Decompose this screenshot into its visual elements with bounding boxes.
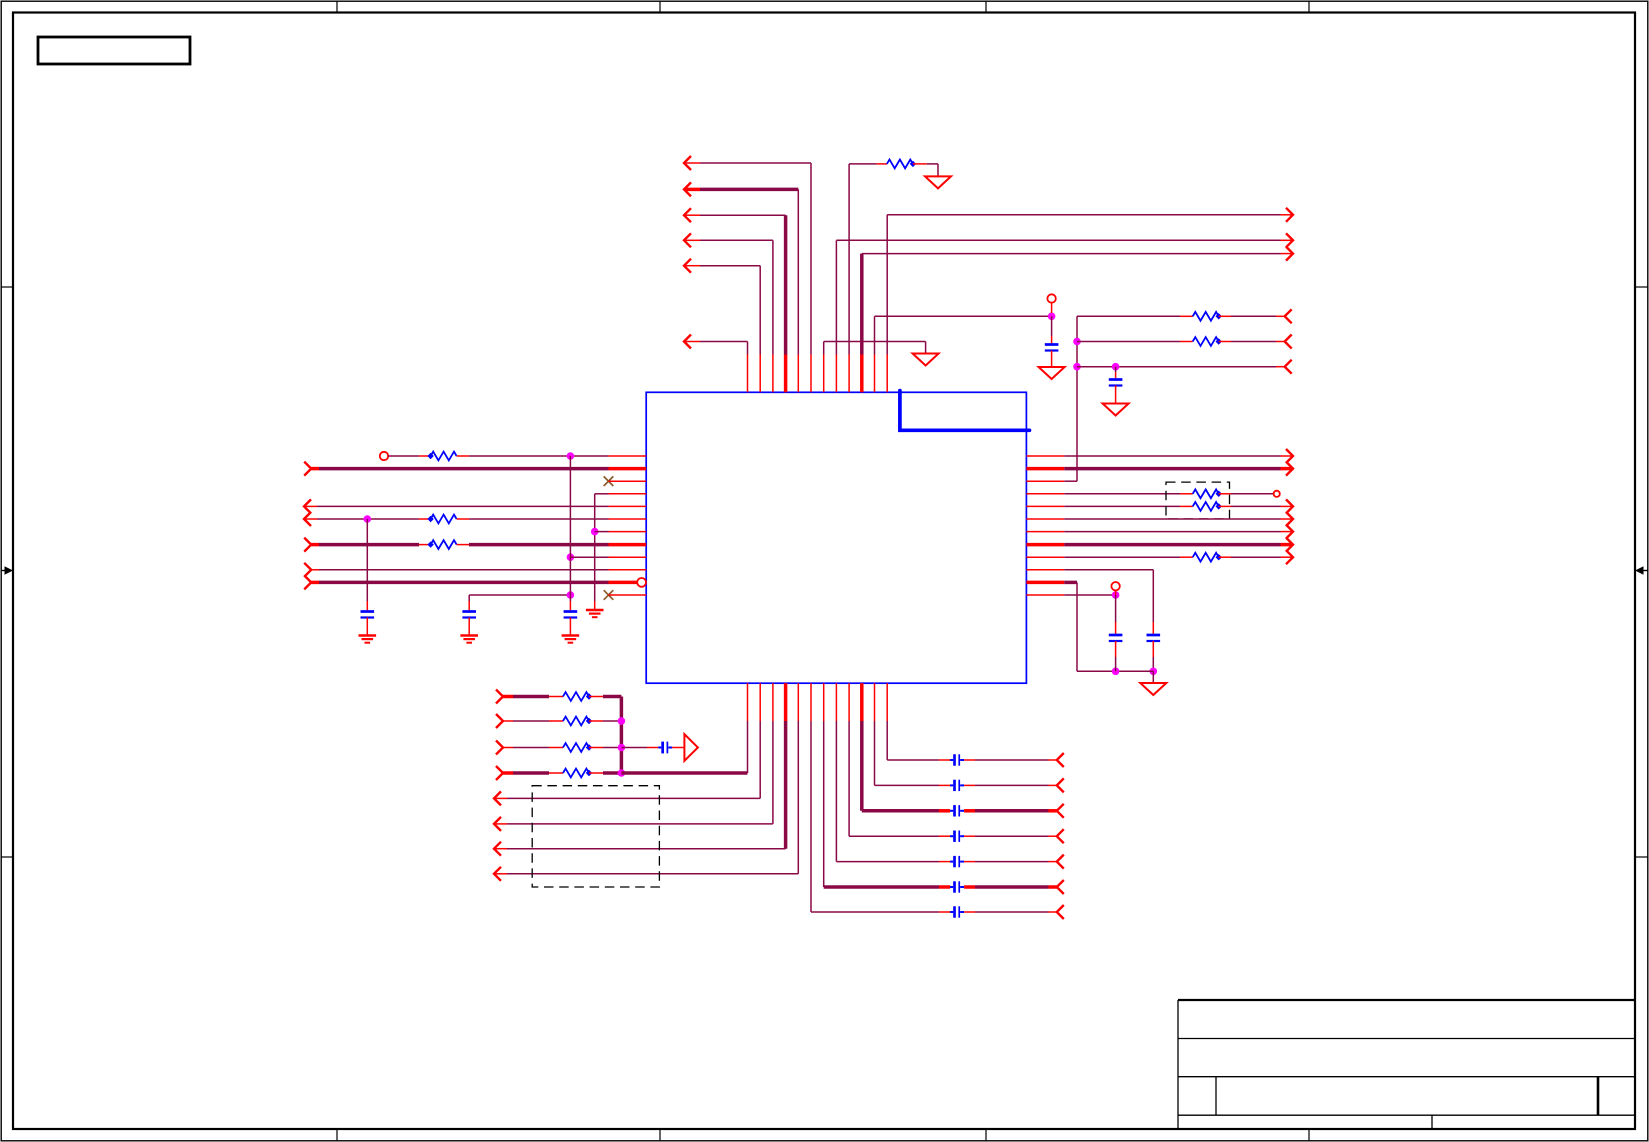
decoupling cap C4 below node x1051 (1051, 316, 1053, 336)
wire U1 pin 785.6 (thick riser) to left arrow y848.7 (784, 721, 788, 849)
wire U1 pin 861.8 to series cap C11 and arrow y810.8 (860, 721, 864, 811)
no-connect pin row3 (604, 476, 614, 486)
junction x621 y721 (618, 717, 626, 725)
wire top port 5 to U1 pin x760.2 (684, 259, 691, 273)
cap C7 x1115 (1115, 595, 1117, 622)
ground (bar) for C3 (562, 634, 580, 636)
wire U1 row5 via resistor R8 to right arrow (1064, 505, 1180, 507)
wire U1 pin 823.7 up to ground (823, 342, 825, 355)
wire top port 6 to U1 pin x747.5 (684, 335, 691, 349)
vertical wire x570 with cap C3 (569, 456, 571, 601)
no-connect pin row12 (604, 590, 614, 600)
ground (bar) for C2 (460, 634, 478, 636)
decoupling cap C2 branch x469 (468, 595, 470, 601)
dashed variant box around R7 R8 (1166, 482, 1230, 519)
wire U1 pin 849.1 to series cap C12 and arrow y836.2 (848, 721, 850, 836)
ground (bar) for C1 (359, 634, 377, 636)
port arrow y785.4 (1057, 778, 1064, 792)
off-page arrow right row5 (1286, 499, 1293, 513)
wire U1 row12 to cap C7 node (1064, 594, 1115, 596)
U1 top pin stubs (747, 355, 749, 393)
port arrow left y873.8 (494, 867, 501, 881)
wire bottom-left port 1 with resistor R10 (496, 690, 503, 704)
wire riser top via resistor R5 to left-pointing arrow y316 (1077, 315, 1180, 317)
U1 left pin stubs (609, 455, 647, 457)
port arrow y836.2 (1057, 829, 1064, 843)
junction row7 on x594.7 (591, 528, 599, 536)
ground (triangle) at 938 (925, 176, 951, 188)
ground (triangle) at 925 (913, 354, 939, 366)
junction x621 y773 (618, 769, 626, 777)
ground (triangle) for C4 (1039, 367, 1065, 379)
wire left port row8 (thick) with resistor R3 (304, 538, 311, 552)
wire U1 row11 (thick) riser to gnd rail (1064, 581, 1077, 585)
wire U1 pin 772.9 to left arrow y823.9 (772, 721, 774, 824)
wire U1 pin 887.2 to series cap C9 and arrow y760.0 (886, 721, 888, 760)
wire bottom-left port 4 with resistor R13 (496, 766, 503, 780)
wire U1 row7 to right arrow (1064, 531, 1280, 533)
wire U1 row2 (thick) to right arrow (1064, 467, 1280, 471)
junction row12 (1112, 591, 1120, 599)
wire U1 pin 861.8 (thick) to right arrow y253.6 (860, 254, 864, 355)
vertical wire x594.7 to ground (594, 494, 596, 601)
off-page arrow right row6 (1286, 512, 1293, 526)
ground (bar) for x594.7 (586, 609, 604, 611)
title box top-left (38, 37, 190, 64)
off-page arrow right row8 (1286, 538, 1293, 552)
decoupling cap C5 branch x1115 y379 (1115, 367, 1117, 372)
wire thick row y773 to U1 pin 747.5 (621, 771, 747, 775)
wire via resistor R6 to arrow y341.5 (1077, 341, 1180, 343)
off-page arrow right row9 (1286, 550, 1293, 564)
IC U1 body (646, 392, 1026, 683)
port arrow left y823.9 (494, 817, 501, 831)
wire top port 4 to U1 pin x772.9 (684, 233, 691, 247)
wire U1 pin 823.7 to series cap C14 and arrow y887.0 (823, 721, 825, 887)
off-page arrow right y215 (1286, 208, 1293, 222)
inverted pin bubble (637, 578, 646, 587)
junction riser y366.7 (1073, 363, 1081, 371)
wire top port 2 to U1 pin x798.3 (684, 182, 691, 196)
wire U1 pin 811.0 to series cap C15 and arrow y912.0 (810, 721, 812, 912)
off-page arrow right row1 (1286, 449, 1293, 463)
cap tie wire y595 x469-x570 (469, 594, 570, 596)
terminal circle above row12 node (1111, 582, 1119, 590)
wire U1 pin 874.5 to series cap C10 and arrow y785.4 (874, 721, 876, 785)
U1 bottom pin stubs (747, 683, 749, 721)
title block bottom-right (1178, 999, 1635, 1001)
IC U1 corner bracket (900, 391, 1030, 431)
wire U1 row4 via resistor R7 to terminal circle (1064, 493, 1180, 495)
wire U1 row1 to right arrow (1064, 455, 1280, 457)
wire U1 pin 836.4 to series cap C13 and arrow y861.6 (835, 721, 837, 862)
wire U1 pin 798.3 to left arrow y873.8 (797, 721, 799, 874)
junction C6 bottom (1150, 668, 1158, 676)
wire U1 row3 up riser x1077 (1064, 480, 1077, 482)
terminal circle row4 (1274, 491, 1280, 497)
wire U1 row9 via resistor R9 to right arrow (1064, 556, 1180, 558)
junction cap branch y366.7 (1112, 363, 1120, 371)
junction rail x1115 (1112, 668, 1120, 676)
off-page arrow right y253.6 (1286, 247, 1293, 261)
wire left port row5 (304, 499, 311, 513)
junction on row1 at x570 (567, 452, 575, 460)
net row1 left: terminal circle, resistor R1 to U1 (380, 452, 388, 460)
wire left port row2 (thick) (304, 462, 311, 476)
port arrow left y798.4 (494, 791, 501, 805)
wire left port row6 with resistor R2 (304, 512, 311, 526)
wire left port row11 (thick) to inverted pin circle (304, 575, 311, 589)
port arrow y341.5 (1285, 335, 1292, 349)
wire left port row10 (304, 563, 311, 577)
decoupling cap C1 branch x367 (366, 519, 368, 601)
wire U1 row10 down to cap C6 (1064, 569, 1153, 571)
off-page arrow right row7 (1286, 525, 1293, 539)
wire bottom-left port 3 with resistor R12 (496, 741, 503, 755)
wire U1 row8 (thick) to right arrow (1064, 543, 1280, 547)
junction node x1051 (1048, 313, 1056, 321)
wire top port 3 to U1 pin x785.6 (684, 208, 691, 222)
resistor network bus vertical x621 (620, 697, 624, 774)
wire U1 pin 887.2 to right arrow y215 (886, 215, 888, 355)
wire bottom-left port 2 with resistor R11 (496, 714, 503, 728)
dashed variant box bottom-left (532, 786, 659, 887)
port arrow y760.0 (1057, 753, 1064, 767)
wire U1 pin 760.2 to left arrow y798.4 (759, 721, 761, 798)
wire U1 pin 836.4 to right arrow y240 (835, 240, 837, 354)
wire row7 junction to U1 (595, 531, 609, 533)
wire U1 row6 to right arrow (1064, 518, 1280, 520)
U1 right pin stubs (1026, 455, 1064, 457)
wire top port 1 to U1 pin x811.0 (684, 156, 691, 170)
wire U1 pin 849.1 via resistor R4 to ground (848, 164, 850, 355)
ground (triangle) for C5 (1103, 404, 1129, 416)
junction x621 y747.5 (618, 744, 626, 752)
junction row6 at x367 (364, 515, 372, 523)
port arrow y861.6 (1057, 855, 1064, 869)
off-page arrow right y240 (1286, 233, 1293, 247)
ground (triangle) right cluster (1140, 683, 1166, 695)
wire to arrow y366.7 (1077, 366, 1276, 368)
junction y595 x570 (567, 591, 575, 599)
off-page arrow right row2 (1286, 462, 1293, 476)
port arrow y887.0 (1057, 880, 1064, 894)
port arrow y810.8 (1057, 804, 1064, 818)
port arrow y912.0 (1057, 905, 1064, 919)
port arrow left y848.7 (494, 842, 501, 856)
junction riser y341.5 (1073, 338, 1081, 346)
port arrow y366.7 (1285, 360, 1292, 374)
series cap C8 and right-pointing power arrow (621, 747, 647, 749)
wire row9 junction to U1 (567, 553, 575, 561)
terminal circle above node x1051 (1047, 294, 1055, 302)
port arrow y316 (1285, 309, 1292, 323)
net row4 to ground: wire (595, 493, 609, 495)
wire U1 pin 874.5 to cap node (874, 316, 876, 354)
